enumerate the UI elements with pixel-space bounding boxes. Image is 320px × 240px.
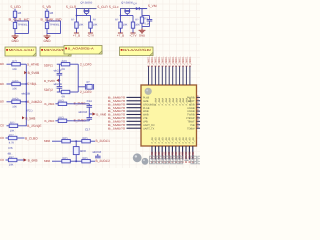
- net label B_2MX1: [45, 102, 55, 106]
- resistor row B_25VQE: [0, 122, 41, 133]
- IC left pin names: [143, 97, 156, 131]
- svg-text:(RC): (RC): [82, 137, 88, 140]
- svg-text:10K: 10K: [9, 164, 14, 167]
- watermark logo circles: [133, 153, 149, 164]
- svg-text:GND: GND: [11, 39, 19, 43]
- svg-text:wbC10: wbC10: [93, 150, 102, 154]
- svg-text:(A/D): (A/D): [12, 80, 18, 83]
- resistor R: 5.1K: [140, 17, 150, 26]
- svg-text:B_24MZO: B_24MZO: [27, 100, 42, 104]
- wire: [46, 17, 48, 22]
- svg-text:10K: 10K: [93, 23, 98, 26]
- svg-text:Q? S8550: Q? S8550: [81, 1, 93, 4]
- svg-text:2_LDF0: 2_LDF0: [80, 62, 92, 66]
- resistor R shunt: [73, 140, 86, 162]
- svg-text:5_ATHE: 5_ATHE: [27, 62, 39, 66]
- resistor R: right pull: [89, 19, 98, 29]
- wire: [15, 29, 29, 35]
- svg-text:TP/9501: TP/9501: [18, 24, 28, 27]
- svg-text:+T_B: +T_B: [73, 34, 80, 38]
- diode D1 label: [134, 3, 138, 6]
- crystal X1: [78, 80, 93, 90]
- svg-text:B_25VQE: B_25VQE: [27, 124, 41, 128]
- label X?F: [8, 146, 13, 150]
- power port B_5V0B: [24, 71, 39, 75]
- wire mid node to bypass: [47, 21, 61, 34]
- resistor R7: top divider resistor: [45, 11, 53, 17]
- resistor R: right pull: [131, 19, 140, 29]
- svg-text:B0: B0: [0, 62, 4, 66]
- wire: [47, 29, 61, 35]
- transistor Q1 label: [81, 1, 93, 4]
- ground: [11, 34, 19, 43]
- svg-text:10K: 10K: [12, 68, 17, 71]
- svg-text:B_2MX: B_2MX: [45, 119, 55, 123]
- svg-text:BC8: BC8: [80, 149, 86, 153]
- svg-text:X?F: X?F: [8, 146, 13, 150]
- svg-text:-CTV: -CTV: [130, 34, 137, 38]
- wire mid node to bypass: [15, 21, 29, 34]
- svg-text:wb21F: wb21F: [54, 69, 62, 72]
- resistor R 2ME1: [55, 100, 72, 106]
- svg-text:B_VM0: B_VM0: [96, 112, 106, 116]
- svg-text:R6: R6: [50, 11, 54, 15]
- wire mid tap to port: [59, 80, 61, 82]
- resistor R6: top divider resistor: [13, 11, 21, 17]
- wire vertical bus: [25, 64, 27, 126]
- svg-text:B_2MX: B_2MX: [45, 102, 55, 106]
- capacitor C osc2: [54, 80, 63, 92]
- svg-text:10K: 10K: [123, 23, 128, 26]
- svg-text:5DF(2: 5DF(2: [44, 88, 53, 92]
- wire: [46, 9, 48, 11]
- resistor R: left pull: [71, 19, 84, 29]
- svg-text:MB0: MB0: [44, 139, 51, 143]
- svg-text:(RC): (RC): [82, 157, 88, 160]
- label wbCDB: [22, 92, 31, 96]
- IC U1 body: [141, 85, 197, 146]
- net label B_2ME2: [74, 118, 86, 122]
- svg-text:TDBW: TDBW: [187, 127, 195, 130]
- svg-text:(RC): (RC): [62, 157, 68, 160]
- svg-text:B/LA/AO/GB/: B/LA/AO/GB/: [123, 48, 151, 52]
- transistor Q2: [124, 9, 130, 16]
- resistor R 2ME2: [55, 117, 72, 123]
- resistor row B_6KB: [0, 156, 38, 167]
- wire base split: [120, 9, 133, 22]
- svg-text:10K: 10K: [12, 105, 17, 108]
- svg-text:5_CLR: 5_CLR: [66, 5, 77, 9]
- svg-text:R?: R?: [135, 19, 139, 22]
- wire rail: [120, 8, 147, 10]
- power port CTV: [130, 33, 137, 38]
- resistor R osc2: [61, 90, 70, 98]
- capacitor C10: [93, 150, 102, 158]
- resistor R udc1b: [82, 157, 95, 163]
- svg-text:wb21B: wb21B: [54, 83, 62, 86]
- net label 5_VM: [148, 4, 157, 8]
- resistor R osc1: [61, 60, 70, 71]
- note 3: [64, 46, 102, 55]
- svg-text:B_5V0B: B_5V0B: [28, 71, 40, 75]
- svg-text:B_AOA0/GB-A: B_AOA0/GB-A: [68, 47, 94, 51]
- capacitor C15: [72, 114, 92, 131]
- wire rail: [76, 8, 97, 10]
- net label 5DF(1: [44, 64, 53, 68]
- resistor row 5P/B: [0, 80, 37, 91]
- label wbC10: [79, 110, 88, 114]
- svg-text:10K: 10K: [79, 23, 84, 26]
- svg-text:C0: C0: [0, 124, 4, 128]
- resistor row B_CLBO: [0, 134, 38, 145]
- svg-text:10K: 10K: [10, 129, 15, 132]
- svg-text:4B..: 4B..: [8, 151, 13, 155]
- power port GND_B: [117, 33, 124, 38]
- net label 5_CLx: [109, 5, 119, 9]
- svg-text:(RC): (RC): [58, 100, 64, 103]
- capacitor C: [147, 20, 153, 27]
- IC left pin wires: [127, 97, 142, 128]
- svg-text:B_2ME1: B_2ME1: [188, 56, 192, 67]
- svg-text:R??: R??: [9, 134, 14, 137]
- resistor R8: bottom divider resistor: [13, 22, 28, 28]
- wire: [14, 17, 16, 22]
- label 4/2: [26, 108, 32, 112]
- svg-text:10K: 10K: [12, 88, 17, 91]
- power port B_5V09: [44, 79, 59, 83]
- power port B_5AB: [22, 116, 35, 120]
- note 1: [5, 47, 36, 56]
- net label B_LEAK_IND: [41, 17, 63, 21]
- svg-text:B0: B0: [0, 82, 4, 86]
- svg-text:B0: B0: [0, 100, 4, 104]
- svg-text:5_LED: 5_LED: [11, 5, 22, 9]
- label 4m: [8, 151, 13, 155]
- svg-text:-CTV: -CTV: [87, 34, 94, 38]
- watermark logo circle on IC: [145, 88, 152, 95]
- net label 5_CLR: [66, 5, 77, 9]
- svg-text:5_VM: 5_VM: [148, 4, 157, 8]
- resistor R: left pull: [115, 19, 128, 29]
- svg-text:D?: D?: [134, 3, 138, 6]
- svg-text:R?: R?: [115, 19, 119, 22]
- svg-text:5_CLx: 5_CLx: [109, 5, 119, 9]
- net label B_2UDC1: [96, 139, 111, 143]
- resistor R udc0b: [82, 137, 95, 143]
- svg-text:C1?: C1?: [85, 127, 91, 131]
- svg-text:0R: 0R: [62, 68, 65, 71]
- svg-text:wbC10: wbC10: [79, 110, 88, 114]
- IC right pin net labels: [197, 95, 199, 129]
- IC top pin wires: [149, 66, 190, 85]
- svg-text:B_2UDC1: B_2UDC1: [96, 139, 111, 143]
- svg-text:(RC): (RC): [58, 117, 64, 120]
- net label 2_LDF0 bottom: [80, 90, 92, 94]
- svg-text:R?: R?: [145, 18, 149, 21]
- svg-text:TP/9501: TP/9501: [50, 24, 60, 27]
- net label 2_LDF0 top: [80, 62, 92, 66]
- wire down to RC: [142, 9, 150, 20]
- transistor Q2 label: [121, 1, 133, 4]
- IC left pin net labels: [108, 96, 126, 131]
- svg-text:5?/B(1: 5?/B(1: [27, 82, 37, 86]
- ground: [139, 29, 146, 38]
- svg-text:5DF(1: 5DF(1: [44, 64, 53, 68]
- svg-text:MP/AA-1/A1/: MP/AA-1/A1/: [9, 48, 35, 52]
- svg-text:B_5AB: B_5AB: [25, 116, 35, 120]
- svg-text:wb(DB: wb(DB: [22, 92, 31, 96]
- net label B_2UDC2: [96, 159, 111, 163]
- svg-text:C0: C0: [0, 158, 4, 162]
- power port CTV: [87, 33, 94, 38]
- svg-text:R?: R?: [93, 19, 97, 22]
- svg-text:5_CLR: 5_CLR: [98, 5, 109, 9]
- svg-text:GND: GND: [139, 33, 145, 37]
- svg-text:MB0: MB0: [44, 159, 51, 163]
- svg-text:R??: R??: [10, 122, 15, 125]
- net label MB0: [44, 139, 51, 143]
- power port B_VM mid: [89, 112, 106, 116]
- svg-text:X?: X?: [86, 80, 90, 84]
- svg-text:4.7K: 4.7K: [9, 142, 15, 145]
- svg-text:P_4B: P_4B: [192, 137, 195, 143]
- resistor R9: bottom divider resistor: [45, 22, 60, 28]
- ground: [43, 34, 51, 43]
- svg-text:Q? S8550: Q? S8550: [121, 1, 133, 4]
- wire RC bottom: [142, 23, 150, 28]
- note 4: [120, 47, 154, 56]
- IC top pin net labels: [147, 56, 192, 67]
- svg-text:2_LDF0: 2_LDF0: [80, 90, 92, 94]
- wire osc bus: [57, 64, 78, 92]
- svg-text:R??: R??: [12, 60, 17, 63]
- wire to grounds: [77, 28, 91, 33]
- IC bottom pin numbers: [151, 137, 195, 143]
- svg-text:B_6KB: B_6KB: [28, 158, 38, 162]
- svg-text:10K: 10K: [135, 23, 140, 26]
- wire from Q2 to diode: [138, 8, 140, 10]
- svg-text:+T_B: +T_B: [117, 34, 124, 38]
- svg-text:5_VB: 5_VB: [43, 5, 52, 9]
- net label B_CLR_HC: [9, 17, 31, 21]
- wire base split: [76, 9, 91, 22]
- resistor R udc1a: [52, 157, 82, 163]
- svg-text:0R: 0R: [62, 96, 65, 99]
- resistor row B_24MZO: [0, 98, 42, 109]
- note 2: [40, 47, 71, 56]
- power port GND_B: [73, 33, 80, 38]
- net label B_2MX2: [45, 119, 55, 123]
- wire diode to net: [139, 8, 147, 10]
- net label B_2ME1: [74, 101, 86, 105]
- resistor row 5_ATHE: [0, 60, 39, 71]
- svg-text:R6: R6: [18, 11, 22, 15]
- IC bottom pin wires: [152, 146, 193, 160]
- IC right pin names: [186, 97, 195, 131]
- IC right pin stubs: [197, 97, 201, 128]
- svg-text:C0: C0: [0, 136, 4, 140]
- svg-text:GND: GND: [43, 39, 51, 43]
- svg-text:B_5MB?0: B_5MB?0: [108, 126, 126, 130]
- svg-text:C14: C14: [87, 99, 93, 103]
- net label 5_CLR: [98, 5, 109, 9]
- transistor Q1: [84, 9, 90, 16]
- IC top pin numbers: [155, 98, 193, 106]
- wire: [14, 9, 16, 11]
- IC bottom pin net labels: [150, 151, 195, 163]
- net label 5_VB: [43, 5, 52, 9]
- wire to grounds: [121, 28, 134, 33]
- capacitor C14: [72, 99, 92, 114]
- svg-text:B_CLBO: B_CLBO: [25, 136, 38, 140]
- watermark text: [150, 155, 204, 164]
- net label 5DF(2: [44, 88, 53, 92]
- capacitor C osc1: [54, 64, 63, 80]
- resistor R udc0a: [52, 137, 82, 143]
- diode D1: [136, 7, 139, 10]
- svg-text:(RC): (RC): [62, 137, 68, 140]
- net label 5_LED: [11, 5, 22, 9]
- svg-text:4?2.): 4?2.): [26, 108, 32, 112]
- svg-text:R1?: R1?: [9, 156, 14, 159]
- svg-text:B_2UDC2: B_2UDC2: [96, 159, 111, 163]
- svg-text:(A/D): (A/D): [12, 98, 18, 101]
- net label MB0: [44, 159, 51, 163]
- svg-text:UART_TX: UART_TX: [143, 127, 155, 130]
- svg-text:(RC): (RC): [62, 60, 68, 63]
- svg-text:R?: R?: [71, 19, 75, 22]
